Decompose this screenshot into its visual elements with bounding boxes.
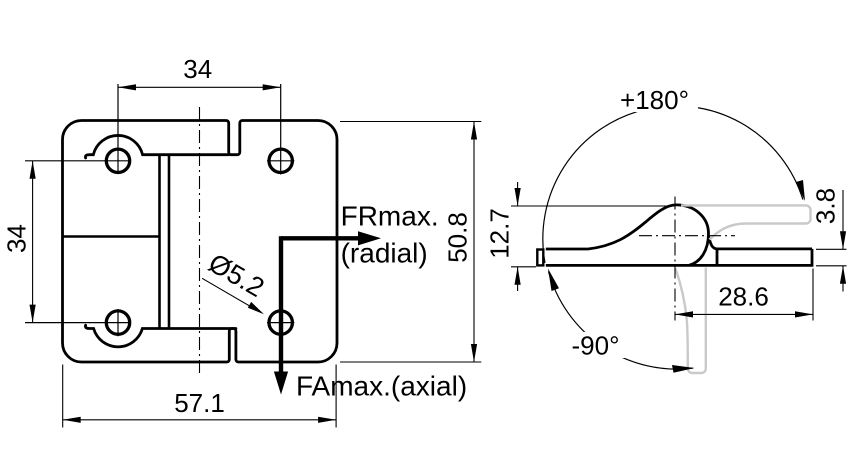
label -90 degrees [566,331,626,361]
svg-text:+180°: +180° [620,85,689,115]
svg-text:57.1: 57.1 [174,388,225,418]
force arrow FR (radial) [281,231,381,245]
svg-text:28.6: 28.6 [718,282,769,312]
side view: right plate left end edge [716,249,719,266]
svg-text:50.8: 50.8 [443,212,473,263]
front view: vertical center line (dash-dot) [199,107,201,375]
dimension 3.8 right of side view [811,188,847,292]
force arrow FA (axial) [274,236,288,394]
leader and label diameter 5.2 [202,248,269,315]
side view: knuckle vertical center line (dash-dot) [674,197,676,321]
front view: left leaf split line [63,235,160,238]
svg-text:34: 34 [2,224,32,253]
side view: knuckle horizontal center line (dash-dot) [639,235,735,237]
label +180 degrees [612,85,698,115]
front view: knuckle vertical line left [158,155,161,329]
side view: profile bottom edge and right end cap [546,249,812,266]
svg-text:3.8: 3.8 [811,188,841,224]
ghost leaf rotated -90 (light gray) [676,268,706,374]
side view: fillet from knuckle to right plate top edge [708,236,812,249]
hole top-left [25,84,131,173]
dimension 34 vertical left [2,161,36,323]
svg-text:34: 34 [183,54,212,84]
side view: left plate top edge and knuckle hump [546,205,709,265]
svg-text:-90°: -90° [572,331,620,361]
svg-text:FAmax.(axial): FAmax.(axial) [296,371,467,402]
hole bottom-left [25,309,131,336]
front view: hinge outer outline with top and bottom slots [63,121,338,363]
dimension 12.7 left of side view [485,182,673,291]
rotation arc -90 with arrowheads both ends [548,269,695,373]
front view: knuckle vertical line right [168,155,171,329]
side view: left end cap of leaf [537,250,543,266]
svg-text:FRmax.: FRmax. [341,201,439,232]
svg-text:12.7: 12.7 [485,208,515,259]
hole top-right [267,84,294,175]
dimension 28.6 below side view [675,269,813,321]
rotation arc +180 with arrowhead [543,106,805,263]
front view: top step line with boss arc over top-left hole [85,135,228,158]
label FAmax.(axial) [296,371,467,402]
dimension 34 horizontal top [118,54,281,90]
dimension 57.1 bottom [63,365,336,428]
svg-text:(radial): (radial) [341,238,428,269]
ghost leaf rotated +180 (light gray) [681,205,811,239]
dimension 50.8 right of front view [340,122,481,363]
label FRmax. (radial) [341,201,439,269]
front view: bottom step line with boss arc under bottom-left hole [85,325,235,347]
hole bottom-right [267,311,294,334]
